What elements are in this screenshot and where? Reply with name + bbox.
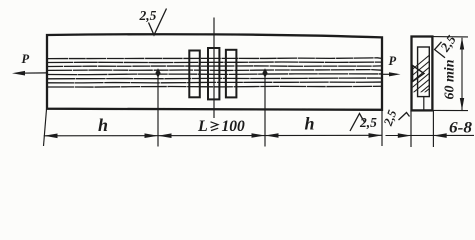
svg-text:P: P: [389, 54, 397, 68]
svg-text:2,5: 2,5: [359, 115, 377, 130]
svg-text:6-8: 6-8: [449, 120, 472, 137]
svg-text:h: h: [305, 114, 315, 134]
svg-text:L: L: [197, 118, 208, 135]
svg-text:2,5: 2,5: [139, 8, 157, 23]
svg-text:h: h: [98, 115, 108, 135]
svg-text:P: P: [22, 52, 30, 66]
svg-text:100: 100: [222, 118, 246, 135]
svg-text:60 min: 60 min: [443, 59, 458, 99]
